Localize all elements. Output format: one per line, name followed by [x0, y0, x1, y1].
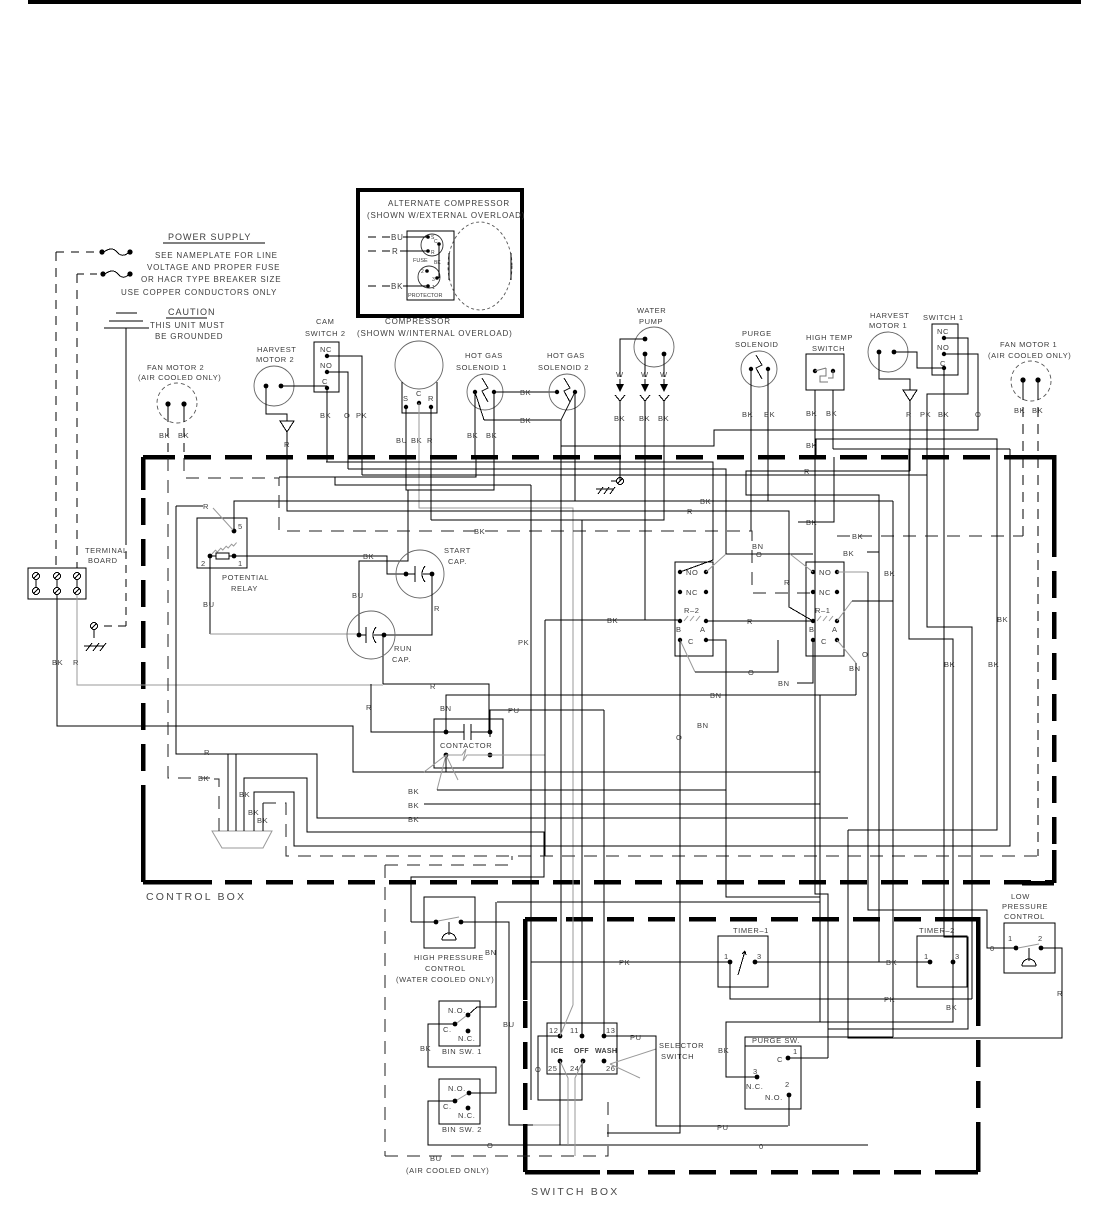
dashed BK net left vertical [168, 458, 219, 831]
svg-text:BK: BK [614, 414, 625, 423]
svg-text:3: 3 [955, 952, 960, 961]
svg-text:B: B [676, 625, 682, 634]
svg-text:25: 25 [548, 1064, 558, 1073]
svg-text:R: R [804, 467, 810, 476]
wire harvest motor 2 to cam switch C [281, 385, 327, 387]
BU wire relay 2 to run cap [203, 556, 359, 634]
svg-text:W: W [641, 370, 649, 379]
BK verticals right of relays [798, 439, 834, 522]
contactor bottom left drop [445, 755, 447, 772]
svg-text:HOT GAS: HOT GAS [547, 351, 585, 360]
solenoid1 drops into box [279, 457, 494, 490]
svg-text:13: 13 [606, 1026, 616, 1035]
water pump mid wire drop [545, 457, 645, 856]
start cap R wire down to run cap [384, 574, 440, 635]
svg-text:W: W [660, 370, 668, 379]
svg-text:SWITCH: SWITCH [812, 344, 845, 353]
svg-text:BK: BK [178, 431, 189, 440]
svg-text:BK: BK [320, 411, 331, 420]
svg-text:2: 2 [201, 559, 206, 568]
timer 2 pin 3 BK drop [718, 962, 957, 1077]
svg-text:HIGH TEMP: HIGH TEMP [806, 333, 853, 342]
svg-text:BN: BN [440, 704, 452, 713]
svg-text:TERMINAL: TERMINAL [85, 546, 128, 555]
svg-text:RUN: RUN [394, 644, 412, 653]
splice R branch [204, 748, 228, 831]
svg-text:CONTACTOR: CONTACTOR [440, 741, 492, 750]
svg-text:TIMER–2: TIMER–2 [919, 926, 955, 935]
svg-text:A: A [700, 625, 706, 634]
vertical 909 drop [335, 477, 531, 485]
svg-text:BK: BK [944, 660, 955, 669]
svg-text:2: 2 [421, 269, 424, 275]
svg-text:C: C [434, 239, 438, 245]
svg-text:START: START [444, 546, 471, 555]
terminal board label [85, 546, 128, 565]
svg-text:BN: BN [485, 948, 497, 957]
svg-text:BN: BN [778, 679, 790, 688]
svg-text:CAM: CAM [316, 317, 334, 326]
svg-text:FAN MOTOR 2: FAN MOTOR 2 [147, 363, 204, 372]
svg-text:BIN SW. 1: BIN SW. 1 [442, 1047, 482, 1056]
svg-text:5: 5 [238, 522, 243, 531]
wire purge feed h1037 [745, 1037, 893, 1046]
harvest motor 2 [254, 345, 297, 406]
svg-text:MOTOR 1: MOTOR 1 [869, 321, 907, 330]
splice [212, 831, 272, 848]
power supply title [163, 232, 265, 243]
svg-text:FAN MOTOR 1: FAN MOTOR 1 [1000, 340, 1057, 349]
svg-text:SOLENOID 2: SOLENOID 2 [538, 363, 589, 372]
svg-text:PK: PK [619, 958, 630, 967]
svg-text:BK: BK [467, 431, 478, 440]
svg-text:CONTROL BOX: CONTROL BOX [146, 891, 246, 903]
svg-text:1: 1 [924, 952, 929, 961]
wire switch1 C BK drop [828, 368, 968, 1029]
cam BK bus into R-2 [326, 462, 713, 572]
svg-text:THIS UNIT MUST: THIS UNIT MUST [150, 321, 225, 330]
svg-text:26: 26 [606, 1064, 616, 1073]
svg-text:BU: BU [203, 600, 215, 609]
svg-text:R: R [392, 247, 399, 256]
terminal board BK wire [52, 595, 820, 773]
svg-text:O: O [748, 668, 754, 677]
svg-text:O: O [344, 411, 350, 420]
svg-text:USE COPPER CONDUCTORS ONLY: USE COPPER CONDUCTORS ONLY [121, 288, 277, 297]
splice hoop 1 [235, 754, 237, 831]
cam lead labels [320, 411, 367, 420]
svg-text:WATER: WATER [637, 306, 666, 315]
svg-text:NO: NO [819, 568, 831, 577]
solenoid 2 blade [561, 392, 575, 420]
svg-text:1: 1 [793, 1047, 798, 1056]
hot gas solenoid 1 [456, 351, 507, 410]
svg-text:SEE NAMEPLATE FOR LINE: SEE NAMEPLATE FOR LINE [155, 251, 278, 260]
svg-text:PK: PK [518, 638, 529, 647]
purge sw NO PU drop [788, 1095, 790, 1126]
svg-text:SOLENOID 1: SOLENOID 1 [456, 363, 507, 372]
fuse terminals [426, 235, 441, 256]
svg-text:O: O [862, 650, 868, 659]
svg-text:C: C [777, 1055, 783, 1064]
R-1 C-left BN stub [778, 640, 813, 688]
bin sw 1 C wire to bin sw 2 NO [420, 1024, 496, 1093]
bin sw 2 C wire to O run [428, 1101, 868, 1151]
svg-text:BK: BK [806, 409, 817, 418]
wire left to contactor [366, 684, 446, 732]
svg-text:N.O.: N.O. [765, 1093, 783, 1102]
svg-text:RELAY: RELAY [231, 584, 258, 593]
relay R-2 [675, 562, 713, 656]
svg-text:2: 2 [1038, 934, 1043, 943]
svg-text:BK: BK [826, 409, 837, 418]
svg-text:OFF: OFF [574, 1048, 589, 1055]
wire cam NC to PK drop [327, 356, 362, 475]
svg-text:BK: BK [742, 410, 753, 419]
svg-text:BK: BK [700, 497, 711, 506]
O wire between relays [706, 550, 813, 572]
purge switch [745, 1036, 801, 1109]
svg-text:N.C.: N.C. [458, 1034, 475, 1043]
svg-text:C: C [821, 637, 827, 646]
svg-text:R: R [204, 748, 210, 757]
svg-text:BK: BK [997, 615, 1008, 624]
svg-text:O: O [676, 733, 682, 742]
solenoid2 drops [561, 420, 575, 1036]
high temp leads [806, 390, 837, 449]
svg-text:BK: BK [159, 431, 170, 440]
svg-text:0: 0 [759, 1142, 764, 1151]
svg-text:NC: NC [819, 588, 831, 597]
svg-text:(SHOWN W/EXTERNAL OVERLOAD): (SHOWN W/EXTERNAL OVERLOAD) [367, 211, 525, 220]
svg-text:NC: NC [937, 327, 949, 336]
svg-text:PU: PU [630, 1033, 642, 1042]
BN wire from contactor [440, 691, 856, 1022]
solenoid 1 blade [475, 392, 484, 420]
dashed BK net right [837, 532, 1023, 541]
svg-text:CAUTION: CAUTION [168, 307, 216, 317]
svg-text:(WATER COOLED ONLY): (WATER COOLED ONLY) [396, 975, 494, 984]
switch 1 [923, 313, 964, 375]
contactor gray wire bottom right [490, 754, 545, 756]
purge sw C wire [788, 1057, 828, 1059]
svg-text:ICE: ICE [551, 1048, 564, 1055]
svg-text:N.O.: N.O. [448, 1006, 466, 1015]
svg-text:A: A [832, 625, 838, 634]
fan motor 2 leads BK BK [159, 404, 189, 457]
wire v909 jog to timer2 pin3 [909, 449, 953, 962]
fan motor 1 [988, 340, 1071, 401]
purge solenoid [735, 329, 779, 387]
svg-text:3: 3 [432, 277, 435, 283]
splice hoop 2 BK [239, 778, 544, 922]
alternate compressor terminal block [407, 231, 454, 300]
R-1 A wire to BK bus [837, 501, 893, 1037]
timer 2 [917, 926, 967, 987]
compressor C lead (gray) [419, 403, 573, 1005]
start cap [396, 546, 471, 598]
caution text [150, 321, 225, 341]
control box dashed border [143, 457, 1054, 883]
svg-text:BK: BK [1014, 406, 1025, 415]
svg-text:11: 11 [570, 1026, 579, 1035]
svg-text:BU: BU [352, 591, 364, 600]
svg-text:BK: BK [520, 416, 531, 425]
svg-text:BK: BK [486, 431, 497, 440]
PK drop to timer 1 [518, 485, 730, 1100]
svg-text:1: 1 [724, 952, 729, 961]
terminal board [28, 568, 86, 599]
svg-text:BK: BK [52, 658, 63, 667]
svg-text:R: R [434, 604, 440, 613]
selector top drops [582, 520, 604, 1036]
PU wire from contactor [490, 706, 604, 737]
svg-text:N.C.: N.C. [746, 1082, 763, 1091]
svg-text:O: O [487, 1141, 493, 1150]
chassis ground symbol [104, 313, 149, 328]
timer 1 pin 1 PK loop [730, 962, 972, 1004]
R bus from harvest motor 2 [287, 432, 813, 621]
power feed wire L2 (dashed) [76, 274, 78, 568]
svg-text:BK: BK [408, 815, 419, 824]
svg-text:SELECTOR: SELECTOR [659, 1041, 704, 1050]
svg-text:O: O [756, 550, 762, 559]
BK lead alt compressor [368, 282, 428, 291]
svg-text:BU: BU [503, 1020, 515, 1029]
svg-text:MOTOR 2: MOTOR 2 [256, 355, 294, 364]
O bus from cam NO [348, 469, 726, 554]
ground wire down from caution ground [98, 328, 126, 626]
svg-text:BN: BN [710, 691, 722, 700]
svg-text:C: C [322, 377, 328, 386]
top border bar [28, 0, 1081, 4]
svg-text:O: O [975, 410, 981, 419]
svg-text:BK: BK [718, 1046, 729, 1055]
HPC left wire [411, 921, 436, 923]
high temp left long drop [806, 439, 828, 1058]
svg-text:BK: BK [411, 436, 422, 445]
O wire R-1 NO down [837, 572, 1016, 953]
power feed wire L1 (dashed) [55, 252, 57, 568]
svg-text:C: C [688, 637, 694, 646]
compressor S (BU) lead [359, 407, 408, 635]
vertical 682 drop [607, 897, 680, 1133]
svg-text:BK: BK [434, 260, 441, 266]
svg-text:HOT GAS: HOT GAS [465, 351, 503, 360]
svg-text:C: C [416, 389, 422, 398]
svg-text:SWITCH: SWITCH [661, 1052, 694, 1061]
svg-text:SWITCH BOX: SWITCH BOX [531, 1186, 620, 1198]
R wire R-2 A to R-1 B [706, 617, 813, 626]
W disconnect 1 [614, 370, 625, 457]
svg-text:R–1: R–1 [815, 606, 831, 615]
svg-text:N.O.: N.O. [448, 1084, 466, 1093]
svg-text:WASH: WASH [595, 1048, 617, 1055]
compressor lead labels BU BK R [396, 436, 433, 445]
water pump [634, 306, 674, 367]
svg-text:1: 1 [1008, 934, 1013, 943]
selector 12 O loop [535, 1036, 582, 1100]
svg-text:BK: BK [946, 1003, 957, 1012]
compressor [357, 317, 513, 413]
svg-text:(SHOWN W/INTERNAL OVERLOAD): (SHOWN W/INTERNAL OVERLOAD) [357, 329, 513, 338]
svg-text:ALTERNATE COMPRESSOR: ALTERNATE COMPRESSOR [388, 199, 510, 208]
low pressure control [1002, 892, 1055, 973]
svg-text:0: 0 [990, 944, 995, 953]
fuse circle [413, 234, 443, 264]
R-2 C left drop [676, 640, 709, 897]
ground stub terminal [84, 623, 106, 652]
switch box label [531, 1186, 620, 1198]
relay R-1 [806, 562, 844, 656]
svg-text:R: R [366, 703, 372, 712]
svg-text:HARVEST: HARVEST [257, 345, 297, 354]
water pump ground wire [596, 457, 624, 494]
svg-text:PROTECTOR: PROTECTOR [408, 293, 442, 299]
svg-text:2: 2 [785, 1080, 790, 1089]
svg-text:R–2: R–2 [684, 606, 700, 615]
svg-text:BK: BK [639, 414, 650, 423]
high pressure control [424, 897, 475, 948]
svg-text:C.: C. [443, 1025, 452, 1034]
water pump top lead to W1 [620, 339, 645, 377]
svg-text:3: 3 [757, 952, 762, 961]
svg-text:NO: NO [937, 343, 949, 352]
bin switch 2 [439, 1079, 480, 1124]
R wire low pressure net [848, 830, 1063, 1038]
timer 1 wire from pin 3 [755, 961, 879, 963]
svg-text:BK: BK [363, 552, 374, 561]
switch box dashed border [525, 919, 978, 1172]
svg-text:POWER SUPPLY: POWER SUPPLY [168, 232, 251, 242]
contactor [434, 719, 503, 768]
svg-text:R: R [431, 250, 435, 256]
svg-text:PURGE: PURGE [742, 329, 772, 338]
timer 1 [718, 926, 769, 987]
BN diagonal from R-2 NO [752, 542, 764, 551]
splice hoop 3 BK [248, 449, 1010, 846]
svg-text:R: R [687, 507, 693, 516]
svg-text:NC: NC [320, 345, 332, 354]
potential relay [197, 518, 269, 593]
harvest motor 2 R lead with connector [266, 386, 294, 457]
svg-text:OR HACR TYPE BREAKER SIZE: OR HACR TYPE BREAKER SIZE [141, 275, 281, 284]
svg-text:12: 12 [549, 1026, 559, 1035]
power switch L2 [77, 271, 133, 277]
lower BK wire solenoids [484, 416, 561, 425]
dashed BK net upper [184, 458, 811, 593]
svg-text:BK: BK [852, 532, 863, 541]
svg-text:S: S [403, 394, 409, 403]
harvest motor 1 [868, 311, 910, 372]
wire switch1 NO to O drop [561, 354, 978, 446]
protector terminals [421, 269, 439, 291]
purge solenoid leads [742, 369, 775, 531]
alternate compressor box [358, 190, 522, 316]
control box label [146, 891, 246, 903]
svg-text:BU: BU [391, 233, 404, 242]
solenoid1-solenoid2 BK wire [494, 388, 557, 397]
svg-text:NC: NC [686, 588, 698, 597]
svg-text:FUSE: FUSE [413, 258, 428, 264]
bin switch 1 [439, 1001, 480, 1046]
BU air cooled label [406, 1154, 489, 1175]
svg-text:BK: BK [886, 958, 897, 967]
svg-text:CAP.: CAP. [448, 557, 467, 566]
BU lead alt compressor [368, 233, 428, 242]
BK wire relay 1 to start cap [234, 552, 406, 574]
R label on gray wire [430, 682, 436, 691]
svg-text:TIMER–1: TIMER–1 [733, 926, 769, 935]
fan motor 1 dashed leads BK BK [1014, 390, 1043, 856]
PK bus [362, 474, 927, 476]
BK wire labels right side [798, 518, 1008, 669]
high temp BK wire right [815, 439, 1010, 830]
contactor gray fanouts [408, 755, 820, 824]
svg-text:PK: PK [356, 411, 367, 420]
svg-text:LOW: LOW [1011, 892, 1030, 901]
svg-text:BK: BK [843, 549, 854, 558]
water pump right bus [431, 457, 664, 520]
svg-text:BK: BK [408, 801, 419, 810]
wire cam NO to O drop [327, 372, 348, 469]
W disconnect 3 [658, 354, 669, 457]
svg-text:BK: BK [198, 774, 209, 783]
svg-text:BK: BK [257, 816, 268, 825]
svg-text:BIN SW. 2: BIN SW. 2 [442, 1125, 482, 1134]
svg-text:BK: BK [764, 410, 775, 419]
alternate compressor title [367, 199, 525, 220]
svg-text:1: 1 [238, 559, 243, 568]
svg-text:BK: BK [938, 410, 949, 419]
selector switch [547, 1023, 617, 1074]
svg-text:SOLENOID: SOLENOID [735, 340, 779, 349]
svg-text:C.: C. [443, 1102, 452, 1111]
svg-text:SWITCH 1: SWITCH 1 [923, 313, 964, 322]
high pressure control label [396, 953, 494, 984]
R wire to relay coil 5 [176, 502, 233, 530]
selector gray diagonals [560, 1005, 583, 1156]
svg-text:BK: BK [988, 660, 999, 669]
svg-text:(AIR COOLED ONLY): (AIR COOLED ONLY) [138, 373, 221, 382]
svg-text:BK: BK [474, 527, 485, 536]
R net vertical to splice [176, 506, 848, 818]
svg-text:R: R [73, 658, 79, 667]
svg-text:PRESSURE: PRESSURE [1002, 902, 1048, 911]
solenoid 2 leads [561, 392, 575, 457]
svg-text:BN: BN [697, 721, 709, 730]
selector switch label [610, 1041, 704, 1078]
O wire R-2 C to R-1 C [680, 640, 778, 677]
svg-text:R: R [430, 682, 436, 691]
LPC pin 2 R wire [1041, 948, 1062, 1001]
W disconnect 2 [639, 354, 650, 457]
svg-text:BK: BK [1032, 406, 1043, 415]
svg-text:R: R [203, 502, 209, 511]
svg-text:PK: PK [884, 995, 895, 1004]
compressor R lead [430, 407, 432, 520]
svg-text:W: W [616, 370, 624, 379]
svg-text:B: B [809, 625, 815, 634]
svg-text:PUMP: PUMP [639, 317, 663, 326]
bin switch 1 label [442, 1047, 482, 1056]
svg-text:(AIR COOLED ONLY): (AIR COOLED ONLY) [406, 1166, 489, 1175]
wire cam C BK drop [326, 388, 328, 462]
hot gas solenoid 2 [538, 351, 589, 410]
HPC right wire BU [461, 922, 560, 1125]
alt compressor motor ellipse [448, 222, 512, 310]
svg-text:NO: NO [320, 361, 332, 370]
